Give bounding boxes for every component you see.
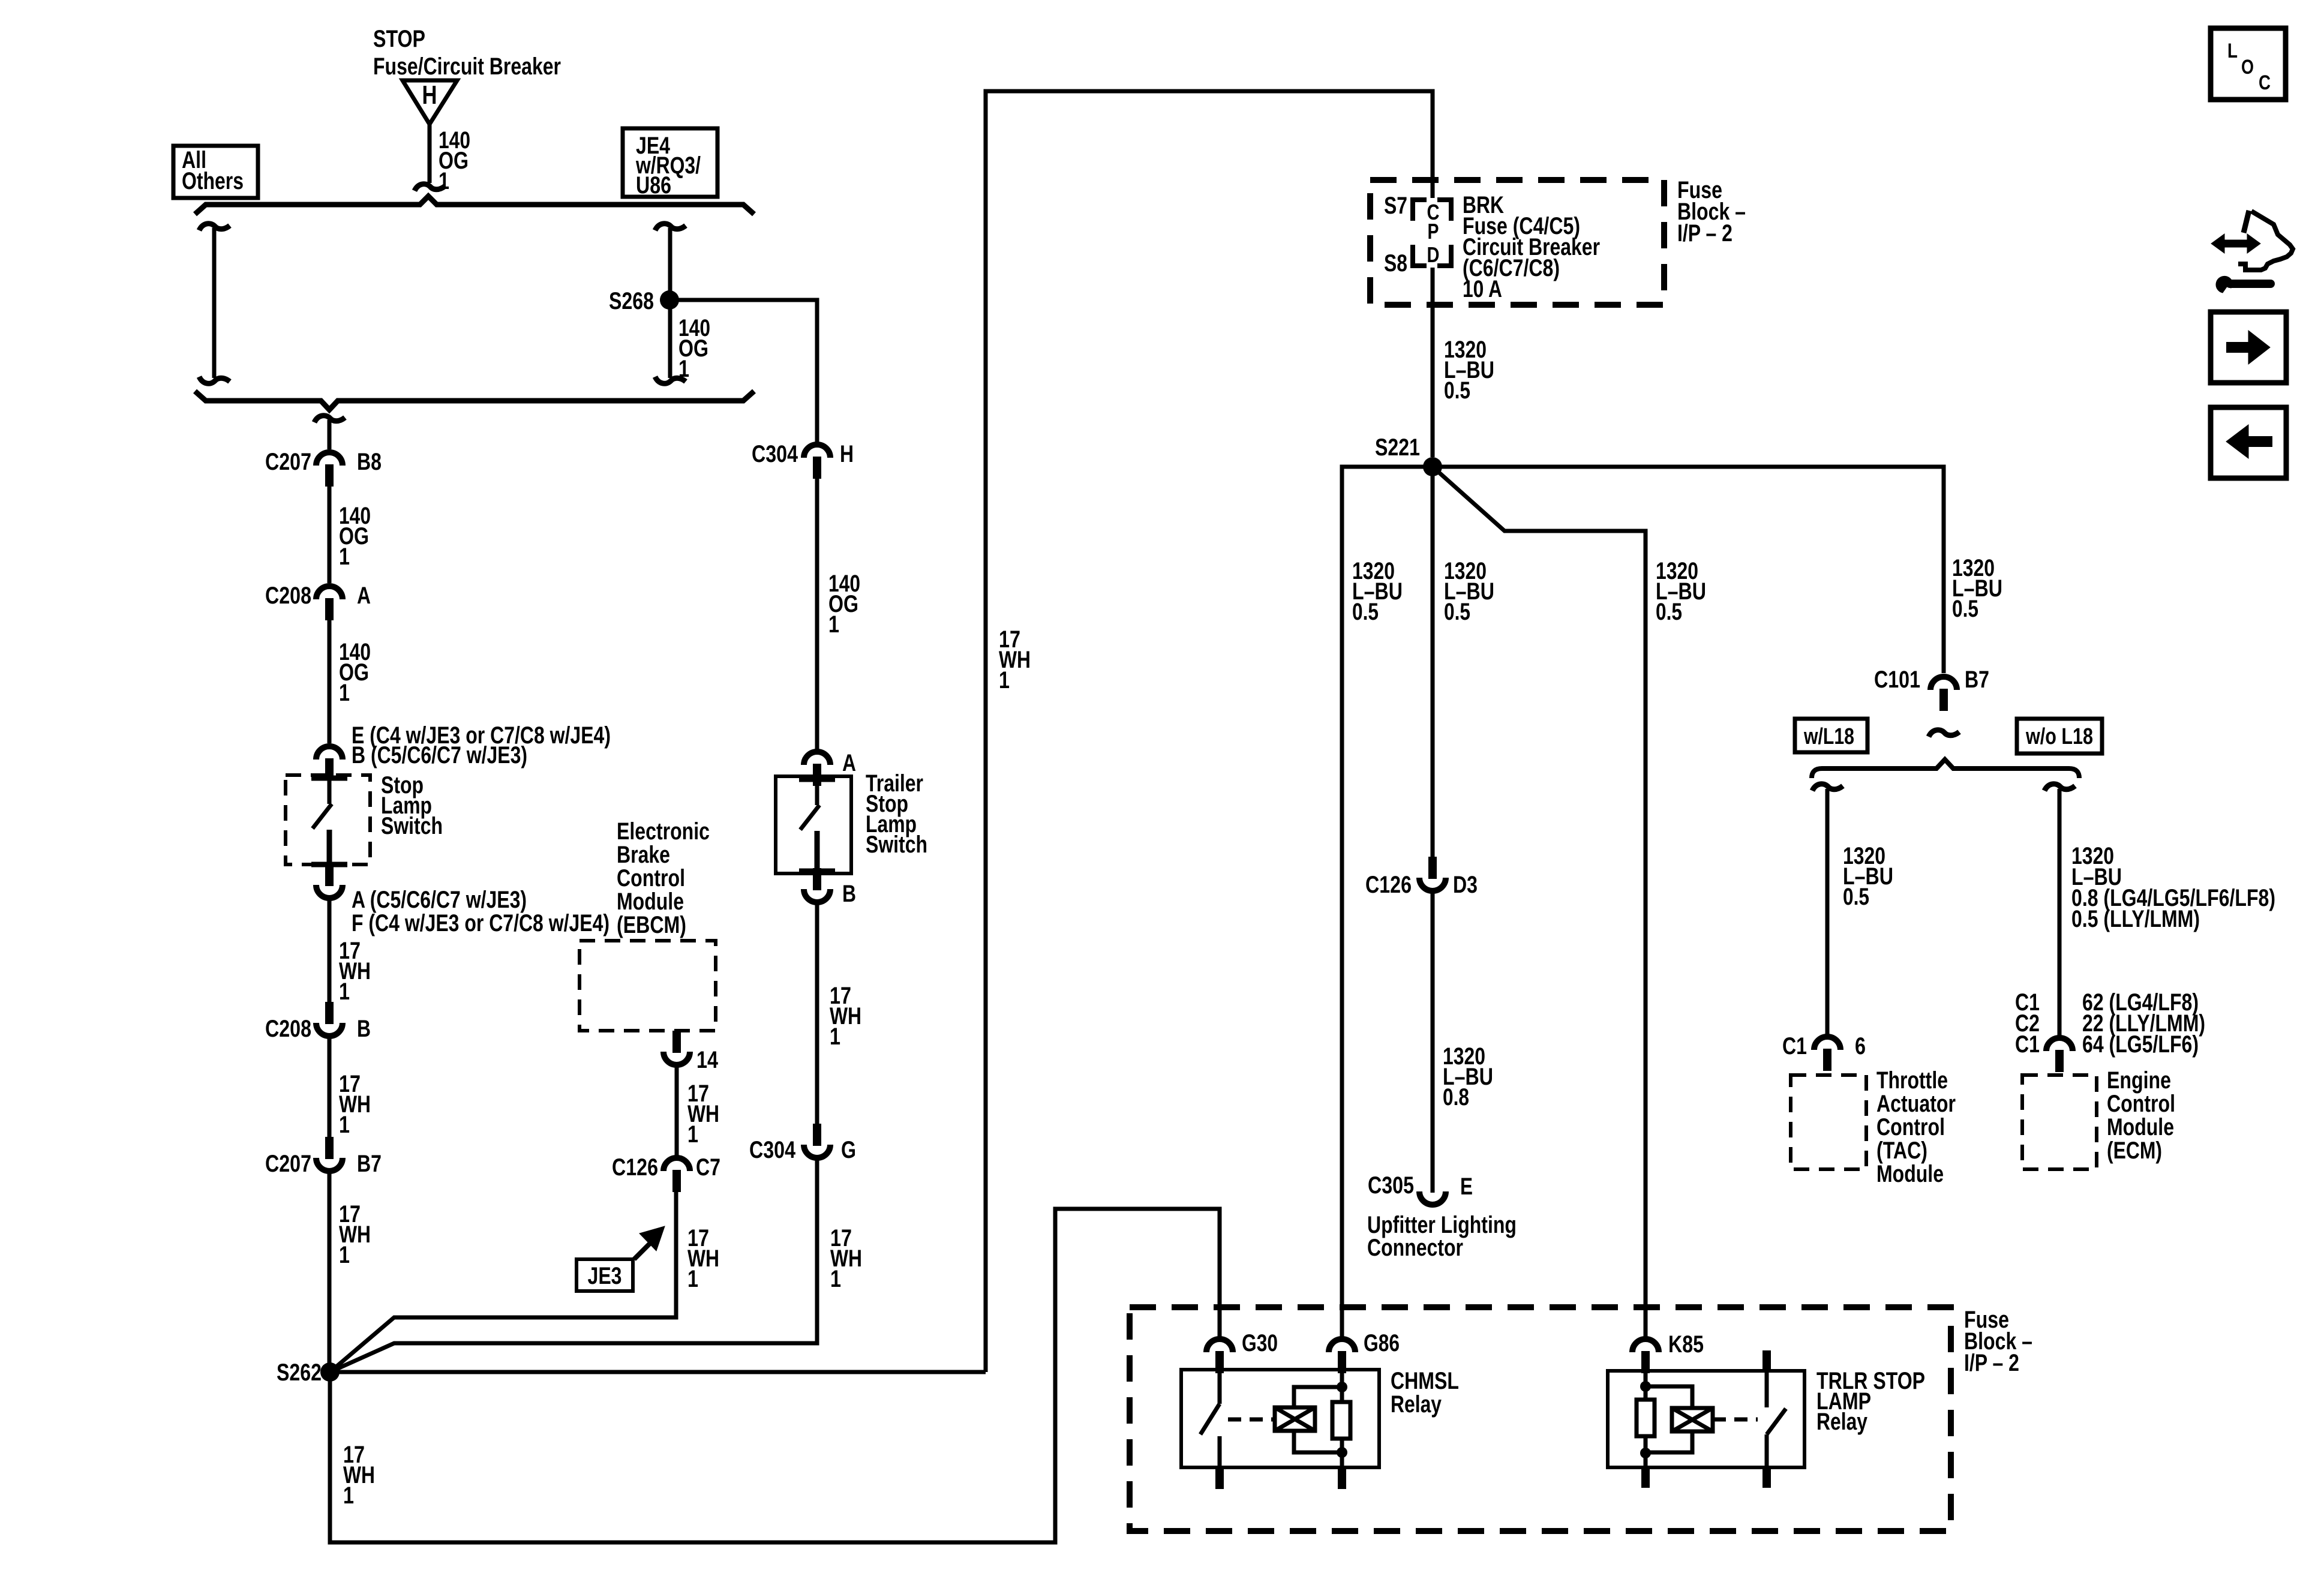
connector C126 pin D3 (1428, 857, 1437, 879)
svg-text:G: G (841, 1137, 856, 1163)
stop lamp switch contacts (311, 776, 347, 781)
splice S268 (660, 290, 679, 310)
svg-text:P: P (1428, 219, 1439, 244)
wire S221 diagonal branch to TRLR relay K85 (1433, 467, 1646, 1337)
CHMSL relay coil (1275, 1407, 1315, 1431)
CHMSL Relay box (1181, 1370, 1379, 1467)
svg-text:U86: U86 (636, 172, 671, 199)
svg-text:B (C5/C6/C7 w/JE3): B (C5/C6/C7 w/JE3) (352, 742, 527, 769)
left option wire (All Others) (199, 224, 230, 230)
TRLR coil wires (1646, 1386, 1692, 1408)
svg-text:64 (LG5/LF6): 64 (LG5/LF6) (2082, 1031, 2199, 1058)
svg-text:1: 1 (339, 1242, 350, 1268)
wire trailer switch B to C304-G (815, 905, 819, 1124)
connector C208 pin B (325, 1002, 334, 1024)
svg-text:14: 14 (696, 1047, 719, 1073)
trailer switch pin A (804, 752, 830, 765)
svg-text:w/L18: w/L18 (1803, 724, 1854, 749)
svg-text:O: O (2241, 56, 2254, 79)
CHMSL relay pin G86 (1329, 1339, 1355, 1352)
TRLR relay coil link dashes (1713, 1418, 1758, 1422)
wire C126-D3 to upfitter connector C305-E (1431, 893, 1435, 1193)
svg-text:STOP: STOP (373, 26, 425, 52)
svg-text:w/o L18: w/o L18 (2025, 724, 2093, 749)
svg-text:10 A: 10 A (1463, 276, 1502, 302)
harness repair icon panel outline (2244, 211, 2249, 233)
w/L18 option box (1795, 719, 1867, 752)
wire S268 to C304 column (669, 300, 817, 442)
svg-text:0.5: 0.5 (1444, 599, 1470, 625)
connector C304 pin G (813, 1124, 821, 1146)
JE4 w/RQ3/U86 option box (623, 128, 717, 197)
svg-text:I/P – 2: I/P – 2 (1677, 220, 1733, 247)
svg-text:Control: Control (617, 865, 685, 891)
trailer switch contacts (799, 777, 835, 782)
svg-text:S8: S8 (1384, 250, 1407, 277)
svg-text:1: 1 (687, 1121, 698, 1148)
svg-text:A: A (357, 583, 371, 609)
svg-text:D: D (1427, 242, 1440, 267)
Engine Control Module (ECM) dashed box (2022, 1075, 2097, 1169)
svg-text:(TAC): (TAC) (1876, 1137, 1927, 1164)
svg-text:C126: C126 (1365, 872, 1412, 898)
upfitter connector C305 pin E (1419, 1191, 1446, 1205)
svg-text:K85: K85 (1668, 1331, 1704, 1358)
svg-text:S221: S221 (1375, 434, 1420, 461)
wire to ECM (2044, 784, 2075, 791)
splice S221 (1423, 457, 1442, 476)
svg-text:F (C4 w/JE3 or C7/C8 w/JE4): F (C4 w/JE3 or C7/C8 w/JE4) (352, 910, 609, 936)
TRLR relay pin K85 (1632, 1339, 1659, 1352)
Stop Lamp Switch dashed box (286, 775, 370, 864)
wire S221 right branch to C101 (1433, 467, 1944, 673)
wire to TAC module (1812, 784, 1843, 791)
svg-text:0.5: 0.5 (1444, 377, 1470, 404)
svg-text:C1: C1 (2015, 1031, 2040, 1058)
svg-text:Others: Others (182, 168, 244, 194)
svg-text:(ECM): (ECM) (2107, 1137, 2162, 1164)
wire C208-B to C207-B7 (328, 1038, 332, 1137)
svg-text:C304: C304 (749, 1137, 796, 1163)
svg-text:S262: S262 (277, 1359, 322, 1386)
svg-text:G86: G86 (1364, 1330, 1400, 1356)
svg-text:Relay: Relay (1391, 1391, 1442, 1418)
svg-text:Module: Module (617, 888, 684, 915)
svg-text:Relay: Relay (1816, 1409, 1868, 1435)
svg-text:C304: C304 (752, 441, 798, 467)
svg-text:0.5: 0.5 (1656, 599, 1682, 625)
fuse symbol H (triangle) (403, 80, 457, 124)
fuse clip brackets lower (1413, 245, 1427, 266)
bottom option bus brace (195, 391, 754, 410)
right option wire (JE4) (655, 224, 686, 230)
svg-text:0.8: 0.8 (1443, 1084, 1469, 1110)
svg-text:1: 1 (339, 544, 350, 570)
CHMSL relay coil link dashes (1228, 1418, 1275, 1422)
svg-text:6: 6 (1855, 1033, 1866, 1059)
svg-text:I/P – 2: I/P – 2 (1964, 1350, 2019, 1376)
wire from fuse H down to bus (428, 124, 432, 183)
svg-text:0.5 (LLY/LMM): 0.5 (LLY/LMM) (2071, 906, 2200, 932)
svg-text:G30: G30 (1242, 1330, 1278, 1356)
stop lamp switch pin A/F (325, 864, 334, 886)
svg-text:C207: C207 (265, 449, 311, 475)
svg-text:C101: C101 (1874, 667, 1920, 693)
svg-text:CHMSL: CHMSL (1391, 1368, 1459, 1394)
svg-text:D3: D3 (1453, 872, 1478, 898)
svg-text:C208: C208 (265, 1016, 311, 1042)
svg-text:H: H (840, 441, 854, 467)
wire stop lamp switch to C208-B (328, 900, 332, 1002)
svg-text:1: 1 (678, 356, 689, 382)
Electronic Brake Control Module (EBCM) dashed box (580, 941, 716, 1031)
svg-text:1: 1 (339, 1112, 350, 1138)
w/o L18 option box (2017, 719, 2102, 754)
svg-text:B: B (357, 1016, 371, 1042)
Throttle Actuator Control (TAC) Module dashed box (1791, 1075, 1866, 1169)
CHMSL relay resistor (1332, 1402, 1350, 1439)
CHMSL relay switch (1218, 1370, 1222, 1404)
svg-text:1: 1 (339, 978, 350, 1005)
Trailer Stop Lamp Switch box (776, 776, 851, 873)
LOC legend box (2211, 28, 2286, 100)
svg-text:1: 1 (339, 680, 350, 706)
svg-text:Switch: Switch (381, 813, 443, 839)
svg-text:1: 1 (828, 611, 839, 638)
TRLR relay bottom pins (1641, 1467, 1650, 1488)
svg-text:B: B (842, 881, 856, 907)
svg-text:Switch: Switch (866, 831, 927, 858)
wire S262 to long 17WH riser (330, 1370, 986, 1374)
JE3 arrow (634, 1242, 651, 1259)
svg-text:Fuse/Circuit Breaker: Fuse/Circuit Breaker (373, 53, 561, 80)
svg-text:C207: C207 (265, 1151, 311, 1177)
TRLR relay switch (1765, 1350, 1769, 1407)
svg-text:E: E (1460, 1173, 1473, 1200)
TRLR relay resistor (1644, 1371, 1648, 1400)
wire S221 left branch down to CHMSL G86 (1342, 467, 1433, 1337)
svg-text:Engine: Engine (2107, 1067, 2171, 1094)
svg-text:H: H (422, 80, 437, 110)
harness repair icon wrench (2216, 276, 2233, 293)
connector C101 pin B7 (1930, 677, 1957, 690)
stop lamp switch pin E/B (316, 746, 343, 760)
Fuse Block I/P-2 dashed box (bottom) (1130, 1307, 1951, 1531)
svg-text:Brake: Brake (617, 842, 670, 868)
svg-text:JE3: JE3 (588, 1263, 622, 1289)
svg-text:1: 1 (830, 1266, 841, 1292)
svg-text:L: L (2227, 40, 2238, 62)
splice S262 (320, 1362, 340, 1382)
break hook below bottom bus (314, 416, 345, 422)
svg-text:Connector: Connector (1367, 1235, 1463, 1261)
TRLR relay top pin (1762, 1350, 1771, 1372)
wire S221 down to C126-D3 (1431, 467, 1435, 857)
svg-text:B8: B8 (357, 449, 382, 475)
svg-text:1: 1 (343, 1482, 354, 1509)
long 17WH wire from top right to S262 bus (986, 91, 1433, 1372)
wire bus to C207 (328, 420, 332, 449)
svg-text:S268: S268 (609, 288, 654, 314)
trailer switch pin B (813, 868, 821, 890)
wire S262 down to CHMSL relay G30 (330, 1209, 1220, 1542)
wire fuse to S221 (1431, 268, 1435, 457)
svg-text:Actuator: Actuator (1876, 1091, 1956, 1117)
svg-text:Control: Control (1876, 1114, 1945, 1140)
svg-text:Control: Control (2107, 1091, 2175, 1117)
EBCM pin 14 (672, 1031, 681, 1053)
svg-text:C: C (2259, 71, 2271, 94)
svg-text:0.5: 0.5 (1843, 884, 1869, 910)
connector C207 pin B8 (316, 452, 343, 466)
connector C304 pin H (804, 445, 830, 458)
wire C304-H to trailer stop lamp switch (815, 479, 819, 749)
TRLR relay coil (1672, 1408, 1713, 1431)
CHMSL relay pin G30 (1206, 1339, 1233, 1352)
wire C208-A to stop lamp switch (328, 620, 332, 743)
svg-text:C208: C208 (265, 583, 311, 609)
engine option brace (1812, 760, 2079, 778)
svg-text:Module: Module (1876, 1161, 1944, 1187)
JE3 option box (577, 1259, 633, 1291)
svg-text:C7: C7 (696, 1154, 720, 1181)
connector C126 pin C7 (663, 1158, 690, 1171)
TRLR STOP LAMP Relay box (1608, 1371, 1804, 1467)
svg-text:(EBCM): (EBCM) (617, 912, 686, 938)
svg-text:Electronic: Electronic (617, 818, 710, 845)
ECM connector (2046, 1038, 2073, 1051)
All Others option box (173, 146, 258, 198)
svg-text:A (C5/C6/C7 w/JE3): A (C5/C6/C7 w/JE3) (352, 887, 527, 913)
CHMSL coil wires (1294, 1387, 1342, 1407)
svg-text:0.5: 0.5 (1352, 599, 1379, 625)
svg-text:Throttle: Throttle (1876, 1067, 1948, 1094)
svg-text:C126: C126 (612, 1154, 658, 1181)
svg-text:C305: C305 (1368, 1172, 1414, 1199)
connector C208 pin A (316, 586, 343, 599)
svg-text:Module: Module (2107, 1114, 2174, 1140)
Fuse Block I/P-2 dashed box (top) (1370, 180, 1664, 305)
svg-text:1: 1 (687, 1266, 698, 1292)
right arrow legend box (2211, 312, 2286, 383)
wire EBCM pin14 to C126-C7 (675, 1067, 679, 1155)
connector C207 pin B7 (325, 1137, 334, 1159)
svg-text:S7: S7 (1384, 193, 1407, 219)
wire C207-B7 to splice S262 (328, 1173, 332, 1372)
svg-text:1: 1 (439, 168, 449, 194)
svg-text:1: 1 (999, 667, 1010, 694)
wire C207-B8 to C208-A (328, 487, 332, 583)
fuse clip brackets upper (1413, 200, 1427, 221)
svg-text:1: 1 (830, 1023, 840, 1050)
wire S262 to EBCM branch (via C126 C7) (330, 1191, 676, 1372)
left arrow legend box (2211, 407, 2286, 478)
TAC connector C1 pin 6 (1814, 1037, 1840, 1050)
svg-text:B7: B7 (357, 1151, 382, 1177)
wire S262 to trailer switch branch (via C304 G) (330, 1160, 817, 1372)
break hook above top bus (415, 184, 445, 191)
top option bus brace (195, 196, 754, 214)
svg-text:0.5: 0.5 (1952, 596, 1978, 622)
svg-text:C1: C1 (1782, 1033, 1807, 1059)
svg-text:A: A (842, 750, 856, 776)
break hook below C101 (1929, 730, 1959, 737)
svg-text:B7: B7 (1965, 667, 1989, 693)
harness repair icon double arrow (2211, 234, 2260, 253)
CHMSL relay bottom pins (1215, 1467, 1224, 1489)
